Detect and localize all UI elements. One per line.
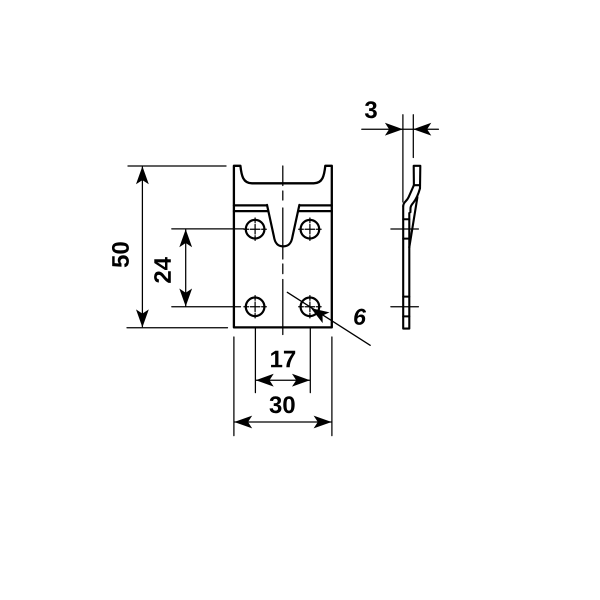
side view: upper hole centerline cross [391,228,419,230]
dim 24: extension lines [172,229,244,307]
dim 30 arrow left [234,416,252,429]
side view: top ear [414,166,421,189]
side view: lance ramp diagonal [409,197,417,247]
hole lower-left [246,298,265,317]
dim 50 arrow up [136,166,149,184]
crosshair lower-left hole [244,296,266,318]
dim 3 arrow pointing right at left face [385,123,403,136]
crosshair upper-right hole [299,218,321,240]
bend line upper [234,204,332,206]
crosshair lower-right hole [299,296,321,318]
side view: lower hole centerline cross [391,306,419,308]
dim 17: dimension line [256,379,310,381]
hole lower-right [301,298,320,317]
dim 50 arrow down [136,309,149,327]
vertical dash-dot centerline of front view [282,166,284,335]
dim 30: extension lines [234,337,332,436]
side view: lower flat strip left edge [403,206,409,329]
label 50 [112,242,129,267]
label 30 [270,396,295,413]
front view: plate outline (left edge, bottom, right edge, ear tops, scoop curve) [234,166,332,328]
label 3 [365,101,377,118]
bend line lower [234,210,332,212]
crosshair upper-left hole [244,218,321,318]
dim 3 arrow pointing left at right face [413,123,431,136]
label 6 [354,309,366,325]
dim 17 arrow left [256,374,274,387]
hole upper-left [246,220,265,239]
dim 24 arrow down [179,289,192,307]
dim 3: dimension line [362,128,439,130]
dim 30 arrow right [314,416,332,429]
dim 17: extension lines [255,329,310,393]
dim 17 arrow right [292,374,310,387]
dim 30: dimension line [235,421,332,423]
dim 3: extension lines [403,115,413,202]
leader arrowhead at hole [307,303,329,323]
dim 24: dimension line [185,230,187,307]
dim 24 arrow up [179,229,192,247]
label 24 [154,257,171,283]
leader line to hole dia 6 [287,292,370,345]
label 17 [271,351,295,368]
pressed V-lance (tapered slot with round bottom) [267,205,299,247]
side view: upper hole edge ticks [403,219,409,238]
side view: jog right edge [410,188,420,212]
side view: jog left edge (S-bend from ear to strip) [403,185,414,206]
dim 50: extension lines [127,166,228,328]
hole upper-right [301,220,320,239]
side view: lower hole edge ticks [403,297,409,317]
dim 50: dimension line [141,167,143,327]
